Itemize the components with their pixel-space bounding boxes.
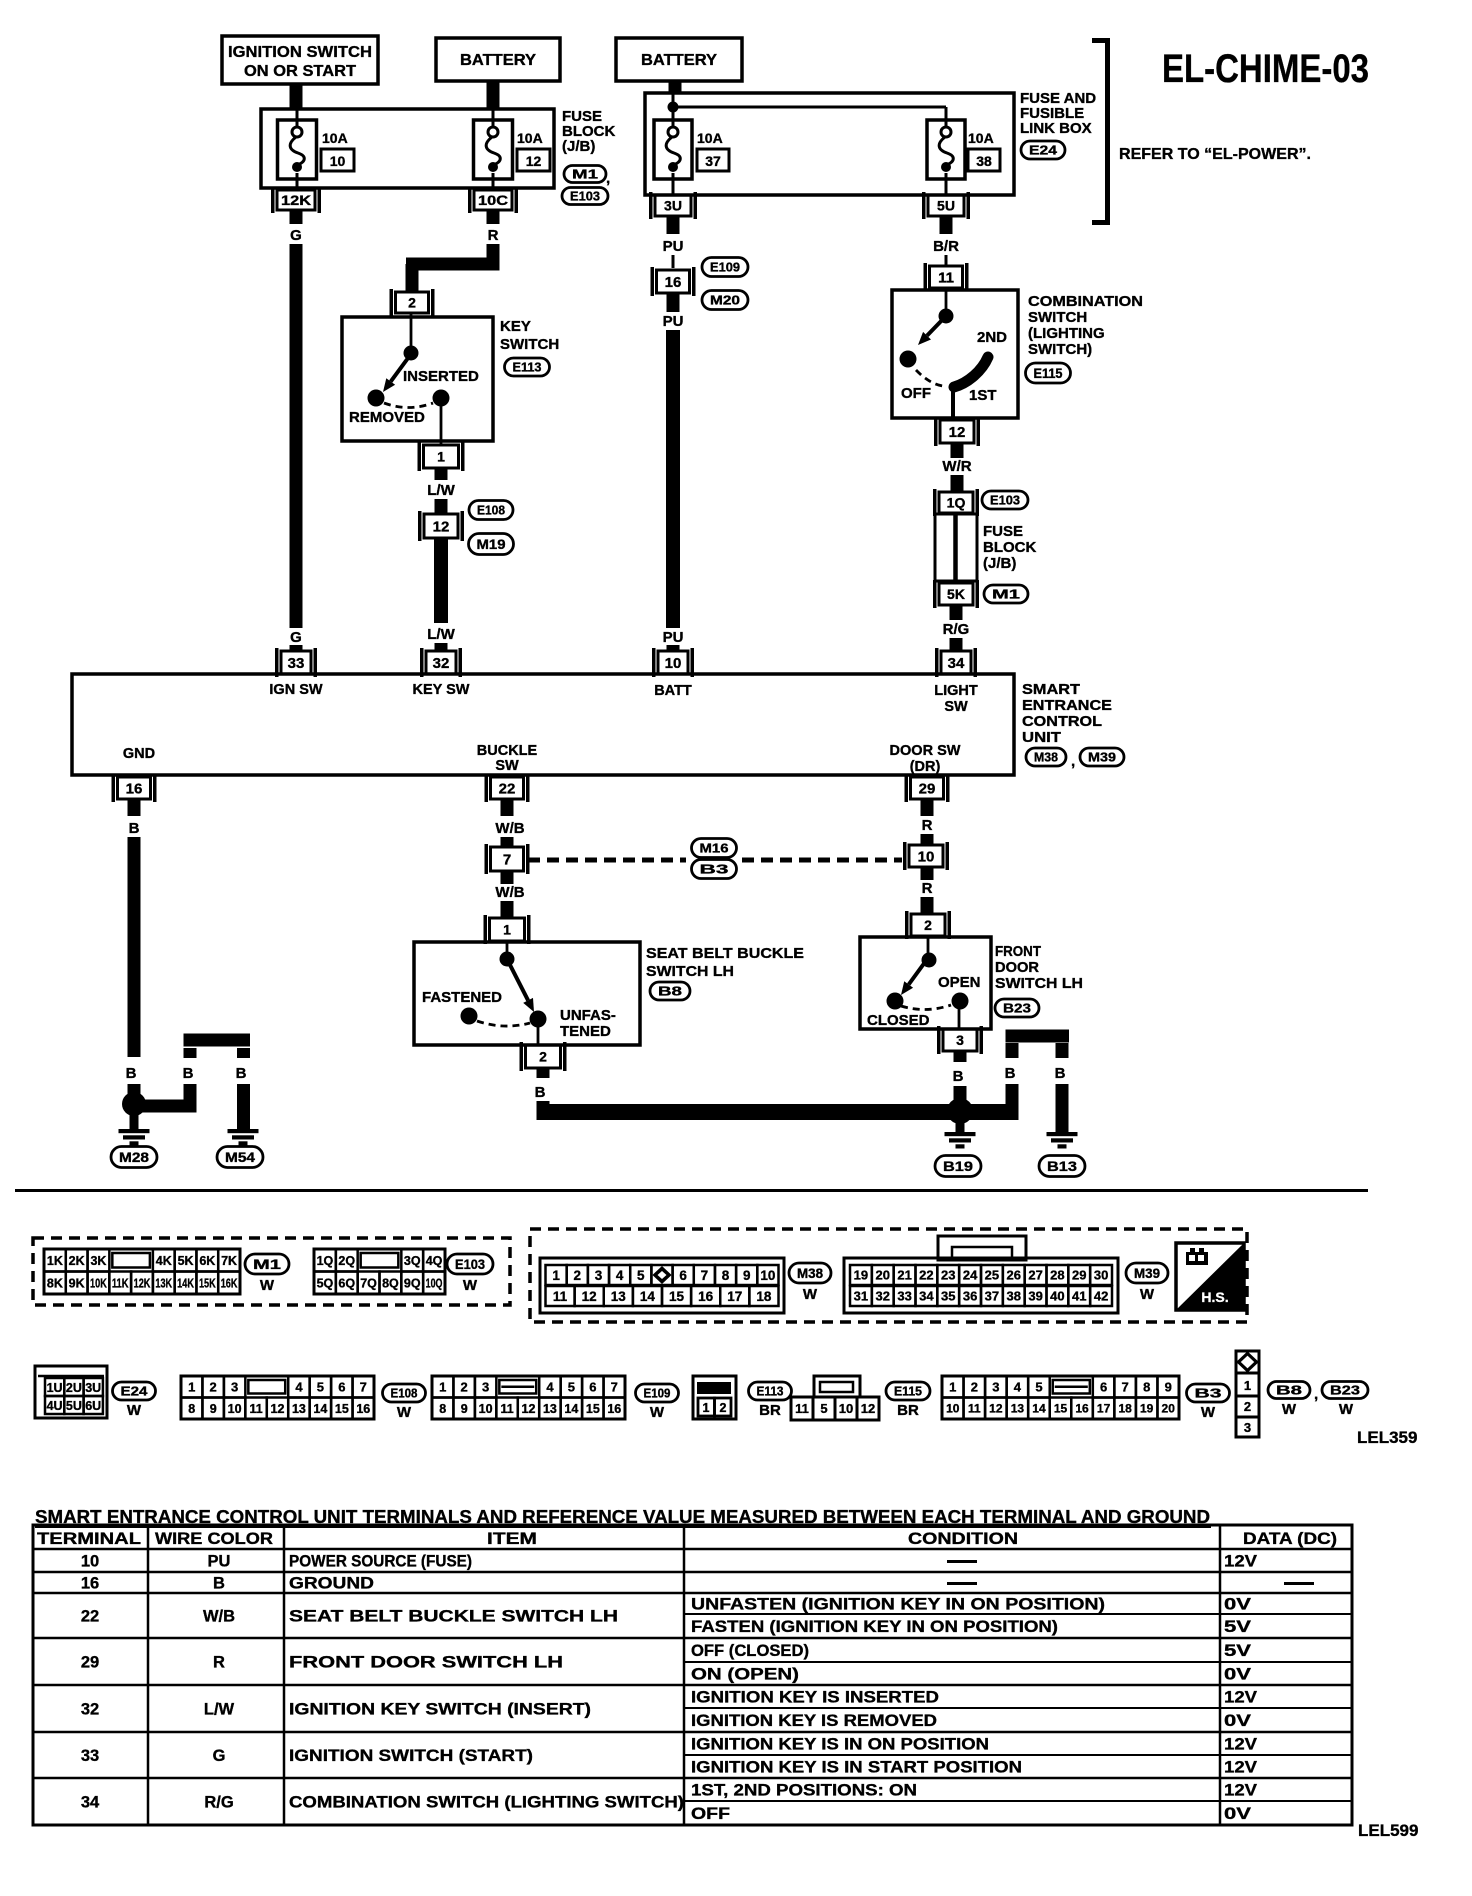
svg-text:GROUND: GROUND (289, 1575, 374, 1593)
svg-text:ENTRANCE: ENTRANCE (1022, 697, 1112, 714)
svg-text:M39: M39 (1088, 750, 1116, 765)
svg-text:W: W (1201, 1404, 1216, 1421)
svg-text:POWER SOURCE (FUSE): POWER SOURCE (FUSE) (289, 1553, 472, 1571)
svg-text:PU: PU (208, 1553, 231, 1571)
svg-text:FRONT DOOR SWITCH LH: FRONT DOOR SWITCH LH (289, 1654, 563, 1672)
svg-text:10Q: 10Q (426, 1276, 443, 1290)
svg-text:14: 14 (640, 1289, 656, 1304)
svg-text:20: 20 (876, 1268, 890, 1283)
svg-text:14K: 14K (177, 1276, 194, 1290)
svg-text:LEL359: LEL359 (1357, 1428, 1417, 1447)
svg-text:5K: 5K (947, 586, 965, 602)
svg-text:2: 2 (539, 1049, 547, 1065)
svg-text:4K: 4K (156, 1254, 172, 1268)
svg-text:34: 34 (948, 655, 965, 672)
svg-text:B/R: B/R (933, 238, 959, 255)
svg-text:12V: 12V (1224, 1736, 1257, 1754)
svg-text:B23: B23 (1330, 1383, 1360, 1398)
svg-text:2U: 2U (66, 1381, 82, 1395)
svg-text:37: 37 (985, 1289, 999, 1304)
svg-text:B: B (126, 1065, 137, 1082)
svg-text:7: 7 (503, 851, 511, 868)
svg-text:OFF (CLOSED): OFF (CLOSED) (691, 1642, 809, 1660)
svg-text:6: 6 (679, 1268, 687, 1283)
svg-text:B13: B13 (1047, 1159, 1078, 1174)
svg-text:12: 12 (522, 1402, 536, 1416)
svg-text:19: 19 (854, 1268, 868, 1283)
svg-text:COMBINATION: COMBINATION (1028, 293, 1143, 310)
svg-text:3: 3 (482, 1379, 489, 1394)
svg-text:IGNITION SWITCH: IGNITION SWITCH (228, 44, 372, 61)
svg-text:13: 13 (1011, 1402, 1025, 1416)
svg-text:M1: M1 (572, 167, 598, 182)
svg-text:7: 7 (360, 1379, 367, 1394)
svg-text:31: 31 (854, 1289, 868, 1304)
svg-text:FASTEN (IGNITION KEY IN ON POS: FASTEN (IGNITION KEY IN ON POSITION) (691, 1618, 1058, 1636)
svg-text:15: 15 (586, 1402, 600, 1416)
svg-text:1K: 1K (47, 1254, 63, 1268)
svg-text:SWITCH LH: SWITCH LH (646, 963, 734, 980)
svg-text:OFF: OFF (901, 385, 931, 402)
svg-text:(J/B): (J/B) (562, 138, 595, 155)
svg-text:9: 9 (210, 1402, 217, 1416)
svg-text:30: 30 (1094, 1268, 1108, 1283)
svg-text:M38: M38 (797, 1266, 823, 1281)
svg-text:2: 2 (971, 1379, 978, 1394)
svg-text:E108: E108 (477, 503, 505, 518)
svg-text:3: 3 (1244, 1420, 1251, 1435)
svg-text:5: 5 (568, 1379, 575, 1394)
svg-text:R/G: R/G (943, 621, 970, 638)
svg-text:DOOR SW: DOOR SW (890, 743, 961, 759)
svg-text:34: 34 (81, 1794, 100, 1812)
svg-text:2K: 2K (69, 1254, 85, 1268)
svg-text:2: 2 (1244, 1399, 1251, 1414)
svg-text:8K: 8K (47, 1276, 63, 1290)
svg-text:SWITCH LH: SWITCH LH (995, 975, 1083, 992)
svg-text:6: 6 (1100, 1379, 1107, 1394)
svg-text:SWITCH): SWITCH) (1028, 341, 1092, 358)
svg-text:22: 22 (81, 1608, 99, 1626)
svg-text:PU: PU (663, 629, 684, 646)
svg-text:5V: 5V (1224, 1642, 1251, 1660)
svg-text:,: , (1314, 1386, 1318, 1403)
svg-text:0V: 0V (1224, 1596, 1251, 1614)
svg-text:M1: M1 (253, 1257, 282, 1272)
svg-text:0V: 0V (1224, 1712, 1251, 1730)
svg-text:1: 1 (437, 449, 445, 465)
svg-text:B: B (213, 1575, 225, 1593)
svg-text:11K: 11K (112, 1276, 129, 1290)
svg-text:5K: 5K (178, 1254, 194, 1268)
svg-text:6Q: 6Q (338, 1276, 355, 1290)
svg-text:12V: 12V (1224, 1689, 1257, 1707)
svg-text:W: W (803, 1286, 818, 1303)
svg-text:M19: M19 (477, 537, 506, 552)
svg-text:10C: 10C (478, 193, 508, 208)
svg-text:14: 14 (1032, 1402, 1046, 1416)
svg-text:15K: 15K (199, 1276, 216, 1290)
svg-text:BATTERY: BATTERY (460, 52, 537, 69)
svg-text:IGNITION KEY IS IN START POSIT: IGNITION KEY IS IN START POSITION (691, 1759, 1022, 1777)
svg-text:16: 16 (607, 1402, 621, 1416)
svg-text:,: , (606, 170, 610, 187)
svg-text:BATT: BATT (654, 683, 692, 699)
svg-text:2: 2 (720, 1401, 727, 1415)
svg-text:UNFAS-: UNFAS- (560, 1007, 616, 1024)
svg-text:SMART: SMART (1022, 681, 1080, 698)
svg-text:BR: BR (759, 1402, 781, 1419)
svg-text:22: 22 (919, 1268, 933, 1283)
svg-text:W: W (463, 1277, 478, 1294)
svg-text:0V: 0V (1224, 1666, 1251, 1684)
svg-text:7: 7 (1122, 1379, 1129, 1394)
svg-text:22: 22 (499, 780, 516, 797)
svg-text:E115: E115 (894, 1384, 922, 1399)
svg-text:SW: SW (944, 699, 968, 715)
svg-text:KEY SW: KEY SW (413, 682, 470, 698)
svg-text:W: W (397, 1404, 412, 1421)
svg-text:FUSE: FUSE (983, 523, 1023, 540)
svg-text:E115: E115 (1034, 366, 1063, 381)
svg-text:2Q: 2Q (338, 1254, 355, 1268)
svg-text:25: 25 (985, 1268, 999, 1283)
svg-text:W/B: W/B (495, 820, 524, 837)
svg-text:4: 4 (1014, 1379, 1022, 1394)
svg-text:12: 12 (526, 153, 542, 169)
svg-text:LEL599: LEL599 (1358, 1821, 1418, 1840)
svg-text:6: 6 (338, 1379, 345, 1394)
svg-text:38: 38 (1007, 1289, 1021, 1304)
svg-text:G: G (290, 629, 302, 646)
svg-text:1: 1 (439, 1379, 446, 1394)
svg-text:11: 11 (500, 1402, 513, 1416)
svg-text:ON OR START: ON OR START (244, 63, 357, 80)
svg-text:5: 5 (820, 1401, 827, 1416)
svg-text:B: B (1005, 1065, 1016, 1082)
svg-text:28: 28 (1050, 1268, 1064, 1283)
svg-text:1: 1 (552, 1268, 560, 1283)
svg-text:11: 11 (249, 1402, 262, 1416)
svg-text:5: 5 (317, 1379, 324, 1394)
svg-text:DATA (DC): DATA (DC) (1243, 1530, 1337, 1548)
svg-text:W: W (1282, 1401, 1297, 1418)
svg-text:BATTERY: BATTERY (641, 52, 718, 69)
svg-text:FRONT: FRONT (995, 943, 1041, 960)
svg-text:10: 10 (81, 1553, 99, 1571)
svg-text:IGNITION KEY IS REMOVED: IGNITION KEY IS REMOVED (691, 1712, 937, 1730)
svg-text:IGNITION SWITCH (START): IGNITION SWITCH (START) (289, 1747, 533, 1765)
svg-text:W: W (260, 1277, 275, 1294)
svg-text:PU: PU (663, 313, 684, 330)
svg-text:9Q: 9Q (404, 1276, 421, 1290)
svg-text:E24: E24 (121, 1384, 149, 1399)
svg-text:SWITCH: SWITCH (1028, 309, 1087, 326)
svg-text:KEY: KEY (500, 318, 531, 335)
svg-text:15: 15 (335, 1402, 349, 1416)
svg-text:TENED: TENED (560, 1023, 611, 1040)
svg-text:12: 12 (582, 1289, 597, 1304)
svg-text:B8: B8 (658, 984, 682, 999)
svg-text:9: 9 (743, 1268, 751, 1283)
svg-text:5U: 5U (937, 198, 955, 214)
svg-text:27: 27 (1028, 1268, 1042, 1283)
svg-text:IGNITION KEY IS IN ON POSITION: IGNITION KEY IS IN ON POSITION (691, 1736, 989, 1754)
svg-text:12: 12 (861, 1401, 875, 1416)
svg-text:1ST, 2ND POSITIONS: ON: 1ST, 2ND POSITIONS: ON (691, 1782, 917, 1800)
svg-text:12: 12 (949, 424, 966, 441)
svg-text:CONDITION: CONDITION (908, 1530, 1018, 1548)
svg-text:37: 37 (705, 153, 721, 169)
svg-text:10: 10 (839, 1401, 853, 1416)
svg-text:H.S.: H.S. (1201, 1289, 1228, 1305)
svg-text:W/B: W/B (495, 884, 524, 901)
svg-text:16K: 16K (221, 1276, 238, 1290)
svg-text:M54: M54 (225, 1150, 256, 1165)
svg-text:FASTENED: FASTENED (422, 989, 502, 1006)
svg-text:M16: M16 (700, 841, 729, 856)
svg-text:42: 42 (1094, 1289, 1108, 1304)
svg-text:WIRE COLOR: WIRE COLOR (155, 1530, 273, 1548)
svg-text:36: 36 (963, 1289, 977, 1304)
svg-text:LIGHT: LIGHT (934, 683, 978, 699)
svg-text:7: 7 (611, 1379, 618, 1394)
svg-text:2: 2 (574, 1268, 582, 1283)
svg-text:16: 16 (126, 780, 143, 797)
svg-text:2: 2 (408, 295, 416, 311)
svg-text:7Q: 7Q (360, 1276, 377, 1290)
svg-text:4: 4 (295, 1379, 303, 1394)
svg-text:16: 16 (81, 1575, 99, 1593)
svg-text:10: 10 (946, 1402, 960, 1416)
svg-text:R: R (922, 880, 933, 897)
svg-text:COMBINATION SWITCH (LIGHTING S: COMBINATION SWITCH (LIGHTING SWITCH) (289, 1794, 684, 1812)
svg-text:SWITCH: SWITCH (500, 336, 559, 353)
svg-text:2: 2 (210, 1379, 217, 1394)
svg-text:12K: 12K (281, 193, 311, 208)
svg-text:32: 32 (876, 1289, 890, 1304)
svg-text:10A: 10A (968, 130, 994, 146)
svg-text:4U: 4U (47, 1399, 63, 1413)
svg-text:10A: 10A (697, 130, 723, 146)
svg-text:7K: 7K (221, 1254, 237, 1268)
svg-text:16: 16 (1075, 1402, 1089, 1416)
svg-text:G: G (290, 227, 302, 244)
svg-text:10A: 10A (517, 130, 543, 146)
svg-text:3Q: 3Q (404, 1254, 421, 1268)
svg-text:UNIT: UNIT (1022, 729, 1061, 746)
svg-text:R: R (488, 227, 499, 244)
svg-text:PU: PU (663, 238, 684, 255)
svg-text:BR: BR (897, 1402, 919, 1419)
svg-text:1U: 1U (47, 1381, 63, 1395)
svg-text:BUCKLE: BUCKLE (477, 743, 538, 759)
svg-text:L/W: L/W (204, 1701, 235, 1719)
svg-text:16: 16 (698, 1289, 714, 1304)
svg-text:5: 5 (637, 1268, 645, 1283)
svg-text:1: 1 (703, 1401, 710, 1415)
svg-text:9: 9 (1165, 1379, 1172, 1394)
svg-text:E109: E109 (644, 1386, 671, 1401)
svg-text:OFF: OFF (691, 1805, 730, 1823)
svg-text:10: 10 (665, 655, 682, 672)
svg-text:18: 18 (756, 1289, 772, 1304)
svg-text:34: 34 (919, 1289, 934, 1304)
svg-text:26: 26 (1007, 1268, 1021, 1283)
svg-text:E103: E103 (455, 1257, 485, 1272)
svg-text:CLOSED: CLOSED (867, 1012, 930, 1029)
svg-text:W: W (127, 1402, 142, 1419)
svg-text:1: 1 (188, 1379, 195, 1394)
svg-text:5Q: 5Q (317, 1276, 334, 1290)
svg-text:5U: 5U (66, 1399, 82, 1413)
svg-text:6: 6 (589, 1379, 596, 1394)
svg-text:41: 41 (1072, 1289, 1086, 1304)
svg-text:L/W: L/W (427, 626, 455, 643)
svg-text:12V: 12V (1224, 1782, 1257, 1800)
svg-text:12V: 12V (1224, 1759, 1257, 1777)
svg-text:OPEN: OPEN (938, 974, 981, 991)
svg-text:IGNITION KEY IS INSERTED: IGNITION KEY IS INSERTED (691, 1689, 939, 1707)
svg-text:10A: 10A (322, 130, 348, 146)
svg-text:E113: E113 (513, 360, 542, 375)
svg-text:3U: 3U (664, 198, 682, 214)
svg-text:39: 39 (1028, 1289, 1042, 1304)
svg-text:10: 10 (918, 848, 935, 865)
svg-text:SEAT BELT BUCKLE SWITCH LH: SEAT BELT BUCKLE SWITCH LH (289, 1608, 618, 1626)
svg-text:,: , (1071, 753, 1075, 770)
svg-text:9: 9 (461, 1402, 468, 1416)
svg-text:13: 13 (292, 1402, 306, 1416)
svg-text:B23: B23 (1003, 1001, 1031, 1016)
svg-text:INSERTED: INSERTED (403, 368, 479, 385)
svg-text:M20: M20 (710, 293, 740, 308)
svg-text:14: 14 (313, 1402, 327, 1416)
svg-text:9K: 9K (69, 1276, 85, 1290)
svg-text:29: 29 (1072, 1268, 1086, 1283)
svg-text:ITEM: ITEM (487, 1530, 537, 1548)
svg-text:DOOR: DOOR (995, 959, 1039, 976)
svg-text:38: 38 (976, 153, 992, 169)
svg-text:B19: B19 (943, 1159, 973, 1174)
svg-text:15: 15 (669, 1289, 685, 1304)
svg-text:M38: M38 (1034, 750, 1058, 765)
svg-text:4Q: 4Q (426, 1254, 443, 1268)
svg-text:IGNITION KEY SWITCH (INSERT): IGNITION KEY SWITCH (INSERT) (289, 1701, 591, 1719)
svg-text:B3: B3 (700, 862, 729, 877)
svg-text:5V: 5V (1224, 1618, 1251, 1636)
svg-text:1Q: 1Q (317, 1254, 334, 1268)
svg-text:IGN SW: IGN SW (269, 682, 322, 698)
svg-text:15: 15 (1054, 1402, 1068, 1416)
svg-text:10K: 10K (90, 1276, 107, 1290)
svg-text:W: W (650, 1404, 665, 1421)
svg-text:35: 35 (941, 1289, 955, 1304)
svg-text:B: B (129, 820, 140, 837)
svg-text:10: 10 (330, 153, 346, 169)
svg-text:33: 33 (897, 1289, 911, 1304)
svg-text:33: 33 (288, 655, 305, 672)
svg-text:(DR): (DR) (910, 759, 941, 775)
svg-text:13: 13 (543, 1402, 557, 1416)
svg-text:16: 16 (665, 274, 682, 291)
svg-text:GND: GND (123, 746, 155, 762)
svg-text:3: 3 (956, 1032, 964, 1048)
svg-text:32: 32 (81, 1701, 99, 1719)
svg-text:4: 4 (616, 1268, 624, 1283)
svg-text:33: 33 (81, 1747, 99, 1765)
svg-text:L/W: L/W (427, 482, 455, 499)
svg-text:3K: 3K (90, 1254, 106, 1268)
svg-text:29: 29 (919, 780, 936, 797)
svg-text:M1: M1 (992, 587, 1020, 602)
svg-text:11: 11 (795, 1401, 809, 1416)
svg-text:40: 40 (1050, 1289, 1064, 1304)
svg-text:R: R (922, 817, 933, 834)
svg-text:3U: 3U (85, 1381, 101, 1395)
svg-text:B: B (236, 1065, 247, 1082)
svg-text:TERMINAL: TERMINAL (37, 1530, 141, 1548)
svg-text:6K: 6K (199, 1254, 215, 1268)
svg-text:32: 32 (433, 655, 450, 672)
svg-text:R/G: R/G (204, 1794, 233, 1812)
svg-text:CONTROL: CONTROL (1022, 713, 1102, 730)
svg-text:3: 3 (595, 1268, 603, 1283)
svg-text:14: 14 (564, 1402, 578, 1416)
svg-text:REMOVED: REMOVED (349, 409, 425, 426)
svg-text:0V: 0V (1224, 1805, 1251, 1823)
svg-text:10: 10 (228, 1402, 242, 1416)
svg-text:B8: B8 (1276, 1383, 1302, 1398)
svg-text:1: 1 (949, 1379, 956, 1394)
svg-text:5: 5 (1035, 1379, 1042, 1394)
svg-text:E24: E24 (1029, 143, 1058, 158)
svg-text:8: 8 (1143, 1379, 1150, 1394)
svg-text:4: 4 (546, 1379, 554, 1394)
svg-text:R: R (213, 1654, 225, 1672)
svg-text:12: 12 (433, 518, 450, 535)
svg-text:6U: 6U (85, 1399, 101, 1413)
svg-text:B3: B3 (1195, 1386, 1222, 1401)
svg-text:1ST: 1ST (969, 387, 997, 404)
svg-text:M28: M28 (119, 1150, 150, 1165)
svg-text:(LIGHTING: (LIGHTING (1028, 325, 1105, 342)
svg-text:1Q: 1Q (947, 495, 966, 511)
svg-text:8: 8 (439, 1402, 446, 1416)
svg-text:13K: 13K (155, 1276, 172, 1290)
svg-text:B: B (535, 1084, 546, 1101)
svg-text:LINK BOX: LINK BOX (1020, 120, 1092, 137)
svg-text:11: 11 (968, 1402, 981, 1416)
svg-text:7: 7 (701, 1268, 709, 1283)
svg-text:3: 3 (231, 1379, 238, 1394)
svg-text:W: W (1140, 1286, 1155, 1303)
svg-text:10: 10 (760, 1268, 775, 1283)
svg-text:2ND: 2ND (977, 329, 1007, 346)
svg-text:12: 12 (271, 1402, 285, 1416)
svg-text:20: 20 (1162, 1402, 1176, 1416)
svg-text:B: B (953, 1068, 964, 1085)
svg-text:M39: M39 (1134, 1266, 1160, 1281)
svg-text:2: 2 (924, 917, 932, 933)
svg-text:(J/B): (J/B) (983, 555, 1016, 572)
svg-text:B: B (183, 1065, 194, 1082)
svg-text:E109: E109 (710, 260, 740, 275)
svg-text:17: 17 (1097, 1402, 1111, 1416)
svg-text:29: 29 (81, 1654, 99, 1672)
svg-text:REFER TO “EL-POWER”.: REFER TO “EL-POWER”. (1119, 146, 1311, 163)
svg-text:3: 3 (992, 1379, 999, 1394)
